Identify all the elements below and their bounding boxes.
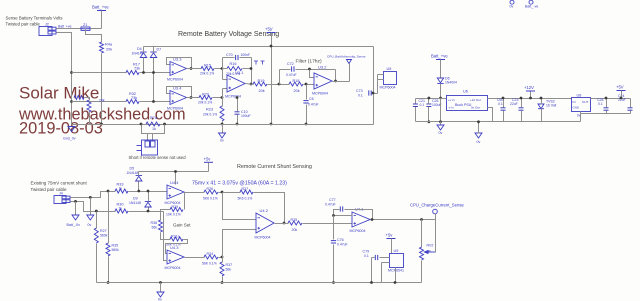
power +5V psu — [616, 85, 626, 91]
svg-text:0.1: 0.1 — [498, 102, 503, 106]
svg-text:C73: C73 — [356, 89, 363, 93]
svg-text:0.47uF: 0.47uF — [286, 73, 297, 77]
jumper JP1 — [137, 140, 158, 155]
wire D5 top — [138, 172, 140, 176]
wire fb U4.2 — [223, 192, 241, 194]
wire R29 to column — [161, 210, 171, 221]
svg-text:+12V: +12V — [524, 85, 534, 90]
svg-text:Existing 75mV current shunt: Existing 75mV current shunt — [31, 181, 88, 186]
wire J2 pin1 to Z1 — [57, 28, 82, 30]
svg-text:R16: R16 — [230, 62, 237, 66]
net flag CPU_ChargeCurrent_Sense — [410, 203, 464, 214]
svg-text:U4.2: U4.2 — [260, 208, 269, 213]
svg-text:D4: D4 — [137, 47, 142, 51]
svg-text:U8: U8 — [577, 94, 582, 98]
wire U9 gnd — [395, 268, 397, 283]
connector J4 — [54, 192, 70, 204]
svg-text:R36: R36 — [151, 221, 158, 225]
junction pin2 R17 — [70, 71, 73, 74]
wire R35 chain top — [108, 192, 110, 244]
svg-text:U9: U9 — [394, 249, 399, 253]
wire U6 out rail — [488, 98, 572, 100]
svg-text:1N4148: 1N4148 — [132, 52, 144, 56]
junction R37 rail — [221, 281, 224, 284]
svg-text:0v: 0v — [477, 140, 481, 144]
op-amp U3.3 — [167, 57, 187, 82]
wire rail right corner — [373, 47, 375, 125]
svg-text:20k: 20k — [259, 89, 265, 93]
junction C10 rail — [236, 123, 239, 126]
wire C79 down — [371, 258, 373, 283]
wire R27 chain bottom — [96, 244, 98, 283]
svg-text:CPU_ChargeCurrent_Sense: CPU_ChargeCurrent_Sense — [410, 203, 464, 208]
wire C6 top — [306, 85, 308, 100]
wire U4.2 out — [275, 223, 289, 225]
ground Gnd_0v — [63, 127, 76, 141]
svg-text:R15: R15 — [204, 64, 211, 68]
wire plus column — [222, 89, 224, 98]
resistor R29 — [170, 208, 183, 212]
svg-text:Twisted pair cable: Twisted pair cable — [6, 22, 41, 27]
tvs diode TVS2 — [538, 104, 544, 109]
junction minus C76 — [332, 214, 335, 217]
junction out node — [250, 83, 253, 86]
svg-text:1k: 1k — [152, 127, 156, 131]
wire U4.3 out — [185, 257, 205, 259]
resistor R4a — [100, 42, 104, 53]
resistor R16 — [227, 67, 242, 71]
junction +5V psu — [620, 97, 623, 100]
wire R16 to out — [243, 68, 252, 70]
wire C70 top b — [240, 57, 252, 59]
svg-text:R35: R35 — [112, 244, 119, 248]
svg-text:100nF: 100nF — [241, 53, 251, 57]
svg-text:R7a: R7a — [150, 116, 158, 120]
svg-text:22uF: 22uF — [510, 102, 518, 106]
wire R16 leads — [223, 68, 228, 70]
svg-text:U3.4: U3.4 — [173, 86, 182, 91]
wire R37 top — [222, 258, 224, 263]
junction fb out — [371, 218, 374, 221]
wire sense lower — [72, 101, 127, 103]
resistor R36 gain — [159, 220, 163, 232]
wire C28 C24 bottom — [580, 114, 582, 122]
ic U5 — [384, 72, 397, 85]
junction R4a rail — [100, 123, 103, 126]
junction psu gnd — [477, 120, 480, 123]
svg-text:U3.1: U3.1 — [235, 70, 244, 75]
svg-text:+5v: +5v — [386, 233, 394, 238]
junction R23 rail — [221, 123, 224, 126]
wire C6 bottom — [306, 105, 308, 125]
svg-text:Gnd_0v: Gnd_0v — [63, 137, 76, 141]
wire C24 lead2 — [630, 111, 632, 114]
svg-text:R34: R34 — [207, 252, 214, 256]
svg-text:CPU_BattVoltsmoltg_Sense: CPU_BattVoltsmoltg_Sense — [327, 55, 366, 59]
svg-text:0.1: 0.1 — [420, 103, 425, 107]
wire C28 leads — [606, 99, 608, 108]
capacitor C6 — [303, 101, 308, 103]
resistor R33 — [115, 189, 128, 193]
resistor R34 — [204, 255, 218, 259]
diode D6 — [437, 78, 443, 84]
wire plus stub U3.1 — [223, 88, 228, 90]
capacitor C28 — [604, 108, 609, 110]
resistor R32 — [126, 100, 139, 104]
svg-text:560k: 560k — [112, 248, 120, 252]
resistor R35b — [106, 243, 110, 256]
junction clamp — [174, 170, 177, 173]
wire U3.1 out — [246, 84, 254, 85]
svg-text:R26: R26 — [207, 187, 214, 191]
wire R23 gnd stub — [222, 125, 224, 134]
junction +12V — [529, 97, 532, 100]
net flag CPU_BattVolts_Sense — [327, 55, 366, 64]
svg-text:560k: 560k — [100, 234, 108, 238]
svg-text:C6: C6 — [309, 97, 314, 101]
wire C23 lead2 — [521, 111, 523, 122]
wire bottom 0v rail — [97, 282, 422, 284]
wire gnd bottom stub — [160, 283, 162, 293]
svg-text:75mv x 41 = 3.075v @150A (60A: 75mv x 41 = 3.075v @150A (60A = 1.23) — [192, 181, 287, 187]
wire +5V column — [271, 33, 273, 125]
svg-text:0.47uF: 0.47uF — [308, 103, 319, 107]
resistor R17 — [126, 71, 139, 75]
junction U3.4 out — [190, 96, 193, 99]
svg-text:Batt_-ve: Batt_-ve — [525, 5, 538, 9]
wire R32 to opamp U3.4 — [140, 101, 171, 103]
svg-text:U5: U5 — [387, 67, 392, 71]
op-amp U4.1 — [350, 207, 371, 234]
wire D6 to lower — [440, 99, 442, 122]
svg-text:C77: C77 — [329, 198, 336, 202]
svg-text:OUT: OUT — [582, 100, 589, 104]
svg-text:20k 0.1%: 20k 0.1% — [200, 72, 214, 76]
capacitor C26 — [426, 104, 431, 107]
svg-text:20k: 20k — [294, 89, 300, 93]
junction RV2 tap — [420, 218, 423, 221]
wire R15 to node — [215, 68, 223, 70]
svg-text:R29: R29 — [172, 205, 179, 209]
wire U9 pin2 drop — [381, 263, 383, 283]
svg-text:C70: C70 — [226, 53, 233, 57]
resistor R27fb — [240, 190, 253, 194]
junction R35 rail — [107, 281, 110, 284]
junction U9 rail — [394, 281, 397, 284]
junction D7 mid — [152, 71, 155, 74]
svg-text:MCP6004: MCP6004 — [165, 266, 181, 270]
wire R23 bottom — [222, 122, 224, 125]
svg-text:0.1: 0.1 — [358, 94, 363, 98]
svg-text:R20: R20 — [202, 93, 209, 97]
wire plus feed U4.3 — [164, 212, 168, 261]
resistor R15 — [201, 67, 214, 71]
op-amp U3.4 — [167, 86, 187, 111]
junction U3.2 out — [334, 80, 337, 83]
svg-text:0v: 0v — [510, 5, 514, 9]
wire U4.1 fb — [334, 210, 353, 216]
svg-text:Batt_-0v: Batt_-0v — [67, 223, 81, 227]
op-amp U3.1 — [225, 70, 245, 99]
svg-text:RV2: RV2 — [427, 244, 434, 248]
wire +5V psu drop — [621, 91, 623, 99]
net tick 5v a — [254, 61, 258, 65]
svg-text:10K 0.1%: 10K 0.1% — [166, 213, 181, 217]
capacitor C73 — [369, 90, 371, 95]
wire fb down to out — [335, 70, 337, 82]
junction C26 bot — [428, 120, 431, 123]
svg-text:0.47uF: 0.47uF — [325, 203, 336, 207]
junction R7a left — [140, 123, 143, 126]
ground 0v shunt — [87, 215, 94, 227]
svg-text:20k 0.1%: 20k 0.1% — [203, 113, 217, 117]
wire +5v U9 drop — [391, 239, 393, 254]
svg-text:+5V: +5V — [265, 27, 273, 32]
svg-text:MCP6004: MCP6004 — [312, 92, 328, 96]
op-amp U4.4 — [165, 180, 185, 205]
resistor R31a — [170, 237, 183, 241]
junction D6 rail — [439, 97, 442, 100]
junction R27 top — [95, 210, 98, 213]
wire U4.4 out — [185, 192, 205, 194]
wire Z2 to rail — [89, 113, 91, 125]
junction C26 top — [428, 97, 431, 100]
junction C60 top — [502, 97, 505, 100]
net flag Batt_-ve — [525, 0, 538, 8]
svg-text:GND: GND — [573, 106, 581, 110]
svg-text:56k: 56k — [226, 268, 232, 272]
capacitor C77 — [340, 206, 342, 211]
junction C76 rail — [332, 281, 335, 284]
svg-text:R31a: R31a — [171, 235, 180, 239]
svg-text:Sense Battery Terminals Volts: Sense Battery Terminals Volts — [6, 16, 63, 21]
wire D5 bottom — [138, 182, 140, 192]
wire D7 anode — [153, 58, 155, 102]
wire minus stub U4.2 — [223, 193, 257, 220]
svg-text:D7: D7 — [157, 48, 162, 52]
svg-text:R18: R18 — [293, 79, 300, 83]
svg-text:20k: 20k — [106, 48, 112, 52]
net tick 5v b — [261, 61, 265, 65]
regulator U6 Buck PSU — [447, 96, 488, 111]
svg-text:100uF: 100uF — [241, 114, 251, 118]
power Batt_+ve psu — [431, 54, 448, 60]
junction C6 rail — [305, 123, 308, 126]
wire C23 leads — [521, 99, 523, 108]
svg-text:R35: R35 — [291, 218, 298, 222]
svg-text:5K6 0.1%: 5K6 0.1% — [203, 197, 218, 201]
diode D9 — [145, 202, 151, 208]
wire flag to wiper — [435, 214, 437, 253]
ic U9 — [390, 254, 404, 268]
svg-text:C72: C72 — [287, 62, 294, 66]
wire R36 to R31a — [161, 233, 171, 240]
wire R37 bottom — [222, 277, 224, 283]
wire fb right — [251, 58, 253, 85]
ground Batt_-0v — [67, 215, 81, 227]
resistor R20 — [199, 96, 212, 100]
wire U8 gnd — [580, 112, 582, 122]
wire R34 to node — [219, 257, 223, 259]
svg-text:20k: 20k — [99, 99, 105, 103]
wire U6 0v out — [488, 108, 493, 122]
wire U3.3 out — [187, 68, 202, 70]
wire cap return — [607, 113, 631, 115]
wire J2 pin2 down — [57, 33, 72, 125]
svg-text:20k 0.1%: 20k 0.1% — [198, 101, 212, 105]
power +5V top — [265, 27, 276, 33]
wire R26 to node — [219, 192, 223, 194]
svg-text:0v: 0v — [88, 223, 92, 227]
junction C79 rail — [370, 281, 373, 284]
svg-text:R37: R37 — [226, 263, 233, 267]
svg-text:Batt_+ve: Batt_+ve — [431, 54, 448, 59]
wire psu left cap leads — [415, 99, 417, 105]
capacitor C60 — [501, 108, 506, 110]
junction U3.3 out — [190, 67, 193, 70]
wire fb left — [222, 58, 224, 80]
svg-text:5K6 0.1%: 5K6 0.1% — [238, 197, 253, 201]
junction D9 top — [147, 190, 150, 193]
wire R4a down to 0v rail — [101, 54, 103, 125]
resistor R26 — [204, 190, 218, 194]
connector J2 — [39, 23, 56, 36]
wire U8 out rail — [591, 98, 631, 100]
power Batt_+ve — [92, 5, 109, 11]
svg-text:1N4004: 1N4004 — [445, 81, 457, 85]
svg-text:0v: 0v — [158, 298, 162, 301]
wire jumper loop — [142, 125, 165, 134]
ground psu 0v — [475, 133, 482, 144]
junction fb right — [250, 67, 253, 70]
wire jog to R4a — [86, 29, 102, 43]
wire D9 bottom — [148, 208, 150, 212]
wire R20 to node — [213, 97, 223, 99]
svg-text:Solar Mike: Solar Mike — [19, 84, 99, 103]
svg-text:Z1: Z1 — [83, 23, 87, 27]
wire U4.4 out branch — [184, 193, 186, 210]
svg-text:MCP6004: MCP6004 — [167, 78, 183, 82]
junction R34 node — [221, 256, 224, 259]
junction D4 — [142, 71, 145, 74]
wire Batt_-0v stub — [75, 202, 77, 216]
svg-text:R19: R19 — [258, 79, 265, 83]
power +12V — [524, 85, 535, 91]
wire D9 top — [148, 192, 150, 202]
ground psu input 0v — [437, 125, 444, 135]
wire D4 cathode — [143, 47, 145, 53]
wire psu left cap leads2 — [415, 107, 417, 122]
wire C79 link — [372, 257, 375, 259]
junction +5V rail124 — [270, 123, 273, 126]
wire +12V drop — [530, 92, 532, 99]
junction C28 top — [605, 97, 608, 100]
potentiometer RV2 — [420, 247, 424, 260]
junction R26 node — [221, 191, 224, 194]
svg-text:U3.3: U3.3 — [173, 57, 182, 62]
wire C10 bottom — [237, 115, 239, 125]
diode D4 — [140, 52, 146, 58]
svg-text:C76: C76 — [337, 238, 344, 242]
junction C23 top — [520, 97, 523, 100]
svg-text:-v In: -v In — [448, 106, 454, 110]
wire D4 anode — [143, 58, 145, 73]
wire C76 top — [333, 216, 335, 240]
svg-text:MCP6004: MCP6004 — [167, 107, 183, 111]
svg-text:73k: 73k — [131, 96, 137, 100]
svg-text:0.47uF: 0.47uF — [337, 243, 348, 247]
junction gnd bottom — [159, 281, 162, 284]
wire U4.1 out — [371, 219, 436, 221]
op-amp U3.2 — [312, 65, 332, 96]
svg-text:73k: 73k — [134, 67, 140, 71]
op-amp U4.2 — [255, 208, 275, 240]
junction filter node — [278, 83, 281, 86]
wire U5 pin1 — [378, 74, 384, 76]
resistor R37 — [220, 262, 224, 276]
wire J4 pin1 — [71, 192, 116, 198]
wire J4 pin2 — [71, 202, 116, 212]
svg-text:J4: J4 — [59, 192, 63, 196]
wire cap return link — [581, 113, 607, 115]
resistor R27b — [94, 228, 98, 243]
wire TVS2 leads — [541, 99, 543, 105]
wire U9 pin2 down — [382, 262, 390, 264]
wire U3.3 feedback — [167, 58, 192, 69]
svg-text:R27: R27 — [242, 187, 249, 191]
svg-text:56K 0.1%: 56K 0.1% — [202, 262, 217, 266]
svg-text:U3.2: U3.2 — [318, 65, 327, 70]
capacitor C24 — [628, 108, 633, 110]
svg-text:U4.4: U4.4 — [170, 180, 179, 185]
wire C76 bottom — [333, 245, 335, 283]
svg-text:U6: U6 — [463, 90, 468, 94]
svg-text:20k: 20k — [292, 228, 298, 232]
wire jumper pin2 — [152, 134, 154, 141]
resistor R7a — [146, 122, 160, 126]
wire clamp rail — [144, 46, 374, 48]
wire U4.1 fb b — [345, 210, 373, 220]
wire U9 pin1 — [380, 257, 390, 259]
junction D5 — [137, 190, 140, 193]
wire R17 to opamp U3.3 — [140, 72, 171, 74]
wire D6 top — [440, 60, 442, 79]
wire Batt_+ve down — [101, 11, 103, 29]
svg-text:Remote Battery Voltage Sensing: Remote Battery Voltage Sensing — [178, 31, 279, 38]
wire C70 top — [223, 57, 235, 59]
net flag 0v — [510, 0, 515, 8]
svg-text:+v In: +v In — [448, 98, 455, 102]
wire R35c to U4.1 — [303, 223, 353, 225]
wire R23 top — [222, 98, 224, 107]
capacitor C72 — [292, 66, 294, 71]
resistor R23 — [220, 106, 224, 121]
power +5v shunt — [204, 157, 214, 163]
wire R27 chain top — [96, 212, 98, 229]
svg-text:C79: C79 — [363, 250, 370, 254]
junction TVS2 top — [540, 97, 543, 100]
wire minus stub U3.1 — [223, 79, 228, 81]
wire psu lower rail — [416, 121, 581, 123]
wire R31a loop — [166, 240, 188, 254]
capacitor C76 — [331, 241, 336, 243]
svg-text:R23: R23 — [206, 108, 213, 112]
svg-text:Buck PSU: Buck PSU — [455, 103, 472, 107]
junction Batt_-0v — [74, 200, 77, 203]
wire R19 to R18 — [268, 84, 290, 86]
junction +5V rail46 — [270, 45, 273, 48]
wire C60 leads — [503, 99, 505, 108]
